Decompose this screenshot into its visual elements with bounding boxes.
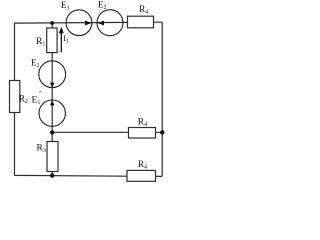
- node D junction dot: [160, 130, 164, 134]
- EMF E3 arrow: [85, 21, 92, 26]
- node C junction dot: [50, 173, 54, 177]
- resistor R1: [47, 28, 57, 53]
- resistor R4 middle: [129, 128, 156, 139]
- svg-text:R4: R4: [139, 5, 148, 16]
- EMF source E2 middle: [39, 61, 66, 88]
- svg-text:E2: E2: [98, 0, 107, 11]
- EMF E1 arrow: [50, 100, 55, 105]
- node B junction dot: [50, 130, 54, 134]
- svg-text:E3: E3: [61, 0, 70, 11]
- EMF source E2 top: [97, 10, 123, 36]
- svg-text:R4: R4: [138, 159, 147, 171]
- wire left vertical: [14, 23, 16, 176]
- resistor R3: [47, 142, 58, 172]
- svg-text:R1: R1: [36, 37, 45, 48]
- svg-text:R2: R2: [19, 94, 28, 106]
- svg-text:R4: R4: [138, 118, 147, 129]
- EMF E2 middle arrow: [50, 83, 55, 88]
- wire right vertical: [161, 22, 163, 176]
- wire middle branch vertical: [51, 23, 53, 176]
- EMF source E1: [39, 100, 65, 126]
- EMF E2 top arrow: [97, 21, 104, 26]
- wire top horizontal: [15, 21, 163, 24]
- svg-text:R3: R3: [37, 144, 46, 155]
- resistor R4 top: [128, 16, 154, 28]
- resistor R4 bottom: [127, 170, 156, 181]
- current arrow I1: [60, 30, 62, 52]
- svg-text:E2: E2: [31, 57, 40, 69]
- svg-text:I1: I1: [63, 34, 69, 45]
- svg-text:′: ′: [39, 90, 41, 99]
- EMF source E3: [66, 10, 92, 36]
- resistor R2: [10, 81, 20, 113]
- wire middle horizontal: [52, 131, 162, 133]
- wire bottom horizontal: [15, 175, 163, 176]
- node A junction dot: [50, 21, 54, 25]
